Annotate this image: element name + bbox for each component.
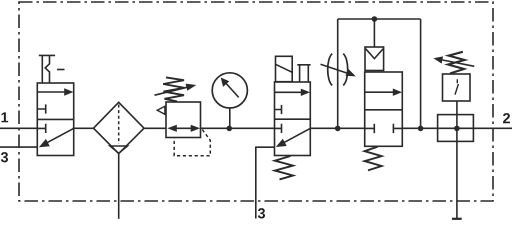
regulator adjustment spring (163, 77, 184, 101)
junction dot (pilot top) (372, 16, 378, 22)
valve V2 blocked port T (bottom box) (275, 124, 282, 133)
pressure switch box (443, 74, 471, 101)
valve V2 body (3/2 solenoid, spring return) (275, 82, 311, 156)
regulator flow path double arrow (170, 127, 197, 129)
pressure switch spring (448, 52, 465, 74)
filter F1 (diamond) (94, 102, 145, 153)
junction dot (pilot left) (335, 126, 341, 132)
label port 1 (1, 112, 8, 122)
branch line through block to drain plug (456, 101, 458, 219)
wire port3 to valve V1 (0, 146, 38, 148)
wire F1 to regulator R1 (143, 127, 167, 129)
junction dot (block) (454, 126, 460, 132)
pressure switch adjustment arrow (443, 60, 475, 66)
junction dot (pilot right) (418, 126, 424, 132)
valve V1 blocked port T (top box) (38, 104, 46, 113)
regulator adjustment arrow (155, 87, 190, 95)
regulator relief vent triangle (157, 106, 165, 114)
minus sign (57, 69, 65, 71)
valve V3 blocked port T right (bottom box) (393, 124, 402, 133)
solenoid coil (276, 56, 293, 81)
valve V1 exhaust diagonal 2->3 (bottom box) (44, 129, 74, 145)
frame (dash-dot enclosure) (19, 2, 493, 201)
throttle (adjustable restrictor) (328, 54, 348, 86)
regulator R1 box (166, 102, 201, 138)
label port 2 (503, 113, 510, 123)
valve V2 return spring (275, 156, 293, 179)
drain plug bar (452, 218, 462, 220)
pressure switch contact (455, 79, 458, 94)
valve V3 return spring (365, 147, 382, 171)
valve V1 flow arrow (top box) (38, 91, 66, 93)
manual override button (297, 65, 310, 82)
valve V3 flow arrow (top box) (365, 91, 395, 93)
wire V1 to filter F1 (73, 127, 95, 129)
regulator pilot line (dashed) (174, 130, 210, 156)
valve V2 exhaust diagonal (bottom box) (281, 129, 311, 145)
valve V2 blocked port T (top box) (275, 105, 282, 114)
junction dot (gauge) (227, 126, 233, 132)
wire V2 to valve V3 (310, 127, 365, 129)
valve V3 body (2/2 piloted soft-start) (365, 72, 403, 146)
label port 3 (left) (1, 152, 8, 162)
wire port1 to valve V1 (0, 127, 38, 129)
throttle adjustment arrow (321, 64, 348, 73)
gauge G1 stem (229, 108, 231, 128)
pilot stem to check valve (373, 19, 375, 47)
distributor block (438, 115, 474, 142)
label port 3 (bottom exhaust) (258, 208, 265, 218)
filter drain line (118, 154, 120, 219)
valve V1 manual detent actuator (39, 54, 55, 56)
gauge needle (226, 83, 239, 98)
valve V2 exhaust line to port 3 (256, 147, 275, 218)
wire V3 to distributor block (402, 127, 512, 129)
pilot right vertical (420, 19, 422, 128)
valve V2 flow arrow (top box) (275, 91, 303, 93)
wire R1 to valve V2 (through gauge junction) (200, 127, 275, 129)
valve V1 body (3/2 manual shut-off) (37, 83, 73, 156)
valve V1 blocked port T (bottom box) (38, 124, 46, 133)
valve V3 blocked port T left (bottom box) (365, 124, 374, 133)
filter element (dashed) (118, 105, 120, 145)
filter water separator triangle (110, 146, 128, 153)
pilot left vertical (337, 19, 339, 128)
pilot top line (338, 18, 421, 20)
gauge G1 (212, 73, 247, 108)
check valve box (365, 47, 384, 71)
